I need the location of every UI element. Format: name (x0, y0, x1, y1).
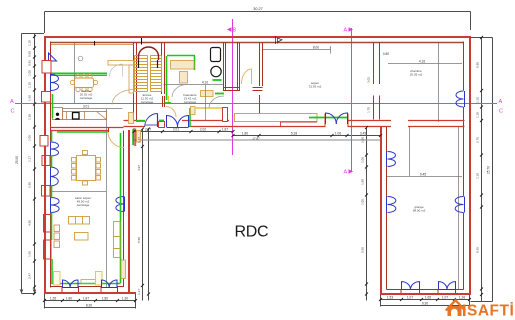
svg-text:9.30: 9.30 (422, 302, 428, 306)
buanderie door arc (172, 85, 187, 98)
section line A-C horizontal (15, 103, 497, 105)
right wall inner (463, 42, 465, 290)
entree green bar (165, 102, 172, 104)
svg-text:3.45: 3.45 (360, 132, 366, 136)
svg-text:4.16: 4.16 (419, 60, 425, 64)
kitchen NE counter horizontal (108, 61, 134, 66)
bottom door arc 2 (102, 280, 118, 288)
armchair 2 (54, 233, 60, 240)
dining chairs left (72, 158, 77, 163)
top dimension line (45, 12, 471, 34)
stair stringers (135, 56, 162, 92)
courtyard short dimension row (134, 128, 233, 142)
safti house right wall (463, 305, 466, 317)
svg-text:5.18: 5.18 (291, 132, 297, 136)
svg-text:1.18: 1.18 (476, 112, 480, 118)
right wing bottom wall outer (380, 293, 471, 295)
svg-text:1.26: 1.26 (459, 296, 465, 300)
svg-text:carrelage: carrelage (184, 100, 197, 104)
west kitchen window arcs (51, 75, 59, 91)
courtyard west wall return (134, 129, 136, 147)
buanderie width dimension (164, 84, 224, 86)
west window box 2 (42, 186, 51, 197)
bottom door arc 1 (63, 280, 79, 288)
safti house door (451, 309, 458, 316)
svg-text:1.80: 1.80 (242, 132, 248, 136)
right wing left-side dimension line (366, 127, 368, 301)
buanderie cupboard top (171, 61, 195, 70)
svg-text:5.90: 5.90 (476, 62, 480, 68)
svg-text:25.70: 25.70 (487, 166, 491, 174)
svg-text:1.05: 1.05 (28, 135, 32, 141)
svg-text:A: A (499, 99, 503, 105)
svg-text:A: A (344, 28, 348, 34)
courtyard wall lower line (124, 126, 465, 128)
north flag symbol (276, 36, 283, 44)
kitchen counter south (63, 112, 107, 120)
east window arcs 1 (116, 197, 125, 212)
sejour top wall (51, 128, 124, 131)
west window box 1 (42, 156, 50, 166)
kitchen ceiling light symbol (78, 56, 83, 61)
tan box hall (201, 91, 214, 97)
wc door arc orange (242, 69, 252, 84)
left dimension line inner (34, 34, 36, 294)
svg-text:8.00: 8.00 (313, 46, 319, 50)
entree yellow leaf (168, 96, 170, 103)
svg-text:2.75: 2.75 (476, 137, 480, 143)
entree door post green cap (159, 120, 164, 122)
svg-text:carrelage: carrelage (77, 203, 90, 207)
right wing west window 2 (387, 197, 396, 213)
entry door triangle top-left (49, 53, 57, 61)
small rooms south wall (224, 88, 263, 91)
buanderie green top (167, 55, 195, 57)
entree single door leaf (157, 114, 159, 128)
kitchen table (75, 78, 94, 88)
buanderie green right (194, 56, 196, 70)
svg-text:1.87: 1.87 (222, 128, 228, 132)
big room counter green (309, 117, 347, 119)
left wing bottom wall inner (51, 287, 125, 293)
sejour green left (51, 131, 54, 284)
courtyard dimension row east (233, 135, 381, 137)
courtyard double door right (177, 116, 188, 128)
coffee table (75, 233, 89, 241)
kitchen corner cabinet (129, 113, 134, 124)
east wall low cabinet (121, 260, 126, 279)
left wing bottom wall outer (44, 292, 136, 294)
entree single door threshold (145, 124, 160, 126)
svg-text:1.60: 1.60 (28, 95, 32, 101)
ticks left wing right line (141, 128, 150, 296)
ticks courtyard row east (232, 134, 383, 137)
big room double door right (336, 113, 347, 124)
svg-text:1.90: 1.90 (361, 179, 365, 185)
svg-text:1.26: 1.26 (50, 297, 56, 301)
right wing door 1 (402, 282, 420, 290)
armchair 3 (54, 241, 60, 248)
svg-text:0.80: 0.80 (383, 52, 389, 56)
sejour green right (120, 133, 122, 283)
washer (211, 48, 221, 62)
sejour green bottom (53, 283, 121, 285)
svg-text:1.65: 1.65 (425, 296, 431, 300)
doormat bench bottom center (81, 280, 97, 284)
svg-text:5.60: 5.60 (361, 247, 365, 253)
ticks right wing left line (365, 126, 368, 296)
kitchen NE counter vertical (129, 65, 134, 93)
west window arcs 2 (51, 167, 59, 186)
stair treads right flight (151, 56, 162, 92)
svg-text:1.38: 1.38 (28, 114, 32, 120)
sideboard tall (114, 222, 121, 258)
svg-text:1.80: 1.80 (66, 297, 72, 301)
kitchen counter green (51, 73, 107, 75)
bottom door leaf 2 (96, 272, 103, 286)
courtyard double door left (167, 116, 178, 128)
top wall inner (51, 42, 464, 44)
sejour green top (57, 131, 108, 133)
right wing east window (455, 197, 464, 213)
sejour door leaf (108, 128, 110, 133)
kitchen NE door arc (110, 64, 123, 77)
bottom-left dimension row 2 (45, 307, 136, 309)
svg-text:1.05: 1.05 (361, 199, 365, 205)
svg-text:31.93 m2: 31.93 m2 (309, 85, 322, 89)
svg-text:2.07: 2.07 (145, 128, 151, 132)
svg-text:17.87: 17.87 (252, 136, 260, 140)
green shelf 2 (215, 93, 224, 95)
west window box 3 (44, 215, 52, 233)
courtyard long dimension line (134, 139, 381, 141)
entree door arc orange (166, 107, 176, 118)
left wing right wall inner (123, 131, 125, 287)
wc wall (238, 42, 240, 91)
svg-text:1.10: 1.10 (476, 97, 480, 103)
dining chairs ends (83, 151, 88, 155)
stair left wall (134, 42, 137, 121)
left wing right-side dimension lines (143, 129, 149, 301)
ticks bottom-right row (379, 298, 471, 301)
svg-text:1.80: 1.80 (102, 297, 108, 301)
ticks left column (33, 35, 36, 295)
chambre top dimension (388, 63, 462, 65)
svg-text:SAFTİ: SAFTİ (467, 303, 514, 320)
right wing door 2 (439, 282, 456, 290)
buanderie green left (166, 56, 168, 100)
right wing bottom wall inner (387, 290, 464, 294)
big room counter lower red line (280, 122, 317, 127)
big room top dimension (262, 46, 331, 54)
chimney block west (40, 136, 48, 147)
svg-text:1.70: 1.70 (367, 107, 371, 113)
svg-text:98.00 m2: 98.00 m2 (413, 209, 426, 213)
left wall inner (50, 42, 52, 288)
hall wall stub box (223, 108, 228, 122)
svg-text:1.10: 1.10 (28, 40, 32, 46)
east wall big window (456, 91, 464, 107)
kitchen SE door arc (112, 90, 134, 105)
wall tick 2 (141, 38, 143, 45)
safti house body (448, 306, 462, 316)
big room double door left (326, 113, 337, 124)
svg-text:1.87: 1.87 (83, 297, 89, 301)
right wall outer (469, 36, 471, 295)
section line A vertical (351, 28, 353, 172)
svg-text:2.02: 2.02 (200, 128, 206, 132)
svg-text:8.35: 8.35 (476, 247, 480, 253)
section line B vertical (232, 19, 234, 155)
kitchen width dimension (53, 108, 123, 110)
svg-text:A: A (344, 170, 348, 176)
safti house roof (446, 300, 465, 310)
chambre left wall (374, 42, 380, 120)
stair treads left flight (135, 56, 148, 92)
west window arcs 1 (51, 142, 59, 156)
right wing left wall inner (386, 126, 388, 290)
courtyard door tan box (191, 107, 196, 115)
kitchen person icon (55, 113, 60, 120)
left wall outer (44, 36, 46, 293)
big room door jambs (325, 114, 348, 127)
left dimension line outer (22, 34, 45, 294)
kitchen green left edge (52, 94, 54, 118)
bottom-right dimension row 1 (381, 294, 470, 307)
west window box 4 (44, 240, 52, 259)
ticks courtyard row (133, 130, 235, 133)
courtyard double door threshold (167, 127, 189, 129)
left wing right wall outer (128, 130, 130, 294)
rotated wing labels (137, 77, 371, 295)
svg-text:2.47: 2.47 (28, 273, 32, 279)
dressing wall (260, 42, 263, 114)
right wing vertical dimension (458, 127, 460, 289)
svg-text:8.30: 8.30 (86, 304, 92, 308)
kitchen counter dividers (67, 112, 107, 120)
window box kitchen (42, 61, 51, 74)
rotated right labels (476, 62, 491, 253)
ticks bottom-left row (43, 299, 137, 302)
bottom door leaf 1 (54, 272, 61, 286)
svg-text:0.93: 0.93 (28, 60, 32, 66)
svg-text:0.60: 0.60 (28, 51, 32, 57)
svg-text:B: B (233, 28, 237, 34)
svg-text:25.90: 25.90 (15, 156, 19, 164)
hall dim tail (205, 85, 207, 121)
right wing width dimension (387, 176, 462, 178)
top wall outer (44, 36, 471, 38)
kitchen interior vertical dimension (74, 42, 76, 103)
dryer (211, 66, 221, 76)
sejour door arc (108, 132, 124, 148)
ticks right column (480, 36, 483, 296)
courtyard wall upper line (124, 120, 465, 122)
right dimension line inner (481, 38, 483, 302)
entree door post (159, 122, 165, 128)
svg-text:2.90: 2.90 (28, 182, 32, 188)
right dimension line outer (471, 38, 493, 302)
sofa (69, 217, 90, 225)
rotated left labels (15, 40, 32, 279)
left dim arrowheads (20, 290, 37, 294)
big room counter tan (235, 114, 318, 122)
svg-text:1.05: 1.05 (361, 157, 365, 163)
kitchen inner trim line (51, 44, 134, 46)
right wing west window 1 (387, 152, 396, 167)
svg-text:1.30: 1.30 (122, 297, 128, 301)
courtyard west cabinet (137, 131, 141, 143)
kitchen stove (73, 113, 80, 120)
svg-text:A: A (10, 99, 14, 105)
svg-text:1.60: 1.60 (28, 251, 32, 257)
chambre vertical dimension (438, 43, 440, 123)
svg-text:3.01: 3.01 (83, 105, 89, 109)
svg-text:RDC: RDC (235, 224, 269, 241)
right wing left wall outer (380, 126, 382, 295)
svg-text:1.10: 1.10 (476, 173, 480, 179)
svg-text:25.05 m2: 25.05 m2 (410, 73, 423, 77)
svg-text:4.97: 4.97 (137, 165, 141, 171)
svg-text:1.17: 1.17 (137, 137, 141, 143)
dining chairs right (96, 158, 101, 163)
buanderie right wall (224, 42, 226, 91)
stair rail posts (139, 60, 158, 68)
kitchen counter north edge (51, 75, 107, 77)
svg-text:4.50: 4.50 (28, 220, 32, 226)
svg-text:1.10: 1.10 (28, 82, 32, 88)
west window arcs 3 (51, 198, 60, 213)
svg-text:5.50: 5.50 (137, 237, 141, 243)
dining table (77, 156, 96, 181)
kitchen person cell (53, 108, 63, 120)
svg-text:C: C (499, 109, 503, 115)
svg-text:1.53: 1.53 (387, 296, 393, 300)
svg-text:9.45: 9.45 (420, 173, 426, 177)
svg-text:1.06: 1.06 (335, 132, 341, 136)
window box kitchen 2 (42, 92, 51, 103)
kitchen chairs (70, 74, 97, 92)
svg-text:30.27: 30.27 (253, 7, 263, 11)
svg-text:1.07: 1.07 (442, 296, 448, 300)
courtyard door green jamb (189, 108, 191, 127)
entree single door arc (145, 114, 158, 128)
svg-text:1.17: 1.17 (137, 289, 141, 295)
svg-text:C: C (11, 109, 15, 115)
right wing aux vertical dimension (409, 126, 411, 176)
svg-text:2.01: 2.01 (173, 128, 179, 132)
courtyard wall green bar left (136, 120, 145, 122)
green shelf 1 (213, 79, 222, 81)
svg-text:1.05: 1.05 (28, 70, 32, 76)
armchair 1 (54, 225, 60, 232)
svg-text:4.10: 4.10 (202, 81, 208, 85)
buanderie cupboard side (180, 72, 188, 84)
svg-text:carrelage: carrelage (141, 100, 154, 104)
stair handrail arch (139, 47, 159, 60)
hall yellow sliding door (195, 107, 223, 109)
sejour vertical dimension (105, 109, 107, 287)
wall tick 1 (94, 41, 96, 46)
stair right wall (162, 42, 165, 94)
courtyard west green (132, 129, 134, 145)
svg-text:2.20: 2.20 (361, 137, 365, 143)
entree wall stub (163, 96, 165, 107)
svg-text:1.17: 1.17 (28, 156, 32, 162)
svg-text:carrelage: carrelage (80, 96, 93, 100)
sejour width dimension (52, 191, 106, 193)
bottom-right dimension row 2 (381, 305, 470, 307)
hall door arc (209, 96, 224, 108)
bottom-left dimension row 1 (45, 294, 136, 309)
svg-text:3.02: 3.02 (367, 77, 371, 83)
svg-text:1.07: 1.07 (407, 296, 413, 300)
